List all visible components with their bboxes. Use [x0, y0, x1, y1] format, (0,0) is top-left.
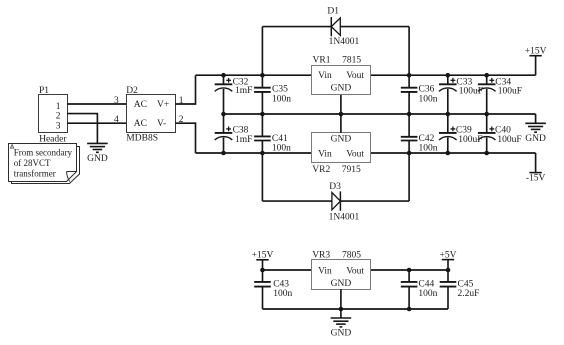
wire bottom return — [263, 308, 449, 310]
wire -15V drop — [535, 153, 537, 173]
diode D3 (1N4001), pointing right — [262, 191, 409, 210]
svg-text:AC: AC — [134, 100, 147, 110]
junction mid rail / VR GND stubs — [339, 112, 344, 117]
junction bottom rail / C41 column — [260, 151, 265, 156]
junction mid rail / C35-C41 column — [260, 112, 265, 117]
svg-text:VR3: VR3 — [312, 250, 330, 260]
ground GND (bottom section) — [331, 318, 352, 327]
junction mid rail / C36-C42 column — [407, 112, 412, 117]
wire middle ground rail — [224, 113, 536, 115]
wire bottom rail left (V- input to VR2 Vin) — [196, 152, 312, 154]
svg-text:C45: C45 — [458, 279, 474, 289]
bridge rectifier D2 (MDB8S) — [126, 86, 175, 144]
wire VR3 GND stub to bottom return — [340, 289, 342, 309]
svg-text:GND: GND — [331, 279, 352, 289]
svg-text:VR2: VR2 — [312, 165, 330, 175]
svg-text:1N4001: 1N4001 — [329, 37, 360, 47]
junction top rail / C35 column — [260, 73, 265, 78]
svg-text:Vout: Vout — [346, 71, 364, 81]
power tick +15V (bottom) — [256, 259, 268, 261]
connector P1 (Header) — [39, 86, 68, 144]
svg-text:100n: 100n — [419, 94, 438, 104]
regulator VR1 (7815) — [312, 56, 371, 95]
wire bottom rail right (VR2 Vout to -15V) — [371, 152, 536, 154]
svg-text:D3: D3 — [329, 182, 341, 192]
junction bottom return / VR3 GND — [339, 307, 344, 312]
wire right column x=409 (D1/D3 loop through C36,C42) — [408, 27, 410, 202]
junction top wire / C45 +5V — [446, 268, 451, 273]
svg-text:100uF: 100uF — [459, 86, 483, 96]
wire P1 pin2 to ground — [67, 114, 97, 144]
svg-text:V-: V- — [157, 119, 166, 129]
svg-text:D2: D2 — [126, 86, 138, 96]
svg-text:1mF: 1mF — [235, 135, 252, 145]
ground GND (right, output common) — [525, 123, 546, 132]
svg-text:100uF: 100uF — [498, 86, 522, 96]
junction bottom rail / C39 — [446, 151, 451, 156]
svg-text:+15V: +15V — [252, 251, 274, 261]
svg-text:From secondary: From secondary — [14, 148, 73, 158]
svg-text:-15V: -15V — [526, 174, 546, 184]
wire VR2 GND stub to middle rail — [340, 114, 342, 133]
svg-text:7815: 7815 — [342, 56, 361, 66]
capacitor C39 (100uF) — [439, 114, 457, 153]
svg-text:Vout: Vout — [346, 266, 364, 276]
svg-text:1: 1 — [56, 102, 61, 112]
wire top rail left (V+ input to VR1 Vin) — [196, 74, 312, 76]
wire left column x=262 (D1/D3 loop through C35,C41) — [261, 27, 263, 202]
wire D2 pin1 (V+) up to top rail — [175, 75, 195, 104]
wire VR3 Vout to +5V — [371, 269, 448, 271]
svg-text:V+: V+ — [157, 100, 169, 110]
svg-text:100n: 100n — [272, 143, 291, 153]
power -15V — [529, 172, 541, 174]
svg-text:+5V: +5V — [440, 251, 457, 261]
power +15V — [529, 55, 541, 57]
junction top rail / C32 — [221, 73, 226, 78]
svg-text:transformer: transformer — [14, 168, 56, 178]
svg-text:C44: C44 — [418, 279, 434, 289]
svg-text:7805: 7805 — [342, 250, 361, 260]
power tick +5V — [442, 259, 454, 261]
svg-text:GND: GND — [87, 154, 108, 164]
svg-text:Vout: Vout — [346, 149, 364, 159]
capacitor C34 (100uF) — [478, 75, 496, 114]
svg-text:GND: GND — [525, 134, 546, 144]
capacitor C41 (100n) — [254, 136, 271, 140]
svg-text:GND: GND — [331, 329, 352, 339]
svg-text:D1: D1 — [327, 6, 339, 16]
power +5V — [447, 260, 449, 270]
svg-text:GND: GND — [331, 84, 352, 94]
svg-text:1mF: 1mF — [235, 86, 252, 96]
svg-text:C35: C35 — [272, 84, 288, 94]
svg-text:100uF: 100uF — [497, 135, 521, 145]
junction top rail / C36 column — [407, 73, 412, 78]
junction bottom rail / C38 — [221, 151, 226, 156]
svg-text:P1: P1 — [39, 86, 49, 96]
junction mid rail / C33-C39 — [446, 112, 451, 117]
wire P1 pin3 to D2 pin4 — [67, 122, 126, 124]
wire top rail right (VR1 Vout to +15V) — [371, 74, 536, 76]
wire ground drop (bottom section) — [340, 309, 342, 318]
wire +15V drop — [535, 56, 537, 75]
ground GND (left, P1 pin2) — [87, 143, 108, 152]
svg-text:Header: Header — [39, 134, 67, 144]
note: From secondary of 28VCT transformer — [9, 144, 80, 184]
svg-text:3: 3 — [114, 96, 119, 106]
junction top rail / C34 — [484, 73, 489, 78]
svg-text:C36: C36 — [419, 84, 435, 94]
junction +15V / C43 — [260, 268, 265, 273]
junction bottom rail / C42 column — [407, 151, 412, 156]
capacitor C38 (1mF) — [215, 114, 233, 153]
svg-text:2.2uF: 2.2uF — [458, 289, 480, 299]
svg-text:of 28VCT: of 28VCT — [14, 158, 51, 168]
capacitor C33 (100uF) — [439, 75, 457, 114]
regulator VR2 (7915) — [312, 133, 371, 176]
svg-text:VR1: VR1 — [313, 56, 331, 66]
wire VR1 GND stub to middle rail — [340, 95, 342, 114]
svg-text:3: 3 — [56, 121, 61, 131]
svg-text:100n: 100n — [419, 143, 438, 153]
svg-text:100n: 100n — [418, 289, 437, 299]
svg-text:Vin: Vin — [318, 266, 332, 276]
wire right ground drop — [535, 114, 537, 123]
svg-text:Vin: Vin — [318, 71, 332, 81]
svg-text:AC: AC — [134, 119, 147, 129]
svg-text:4: 4 — [114, 115, 119, 125]
regulator VR3 (7805) — [312, 250, 371, 289]
svg-text:C43: C43 — [273, 279, 289, 289]
junction mid rail / C34-C40 — [484, 112, 489, 117]
wire +15V to VR3 Vin — [263, 269, 312, 271]
capacitor C40 (100uF) — [478, 114, 496, 153]
capacitor C43 (100n) — [254, 270, 271, 309]
junction top wire / C44 — [407, 268, 412, 273]
svg-text:1N4001: 1N4001 — [329, 212, 360, 222]
junction top rail / C33 — [446, 73, 451, 78]
capacitor C45 (2.2uF) — [440, 270, 457, 309]
svg-text:MDB8S: MDB8S — [126, 134, 158, 144]
wire P1 pin1 to D2 pin3 — [67, 103, 126, 105]
diode D1 (1N4001), pointing left — [262, 17, 409, 36]
capacitor C36 (100n) — [401, 88, 418, 92]
junction bottom rail / C40 — [484, 151, 489, 156]
svg-text:100n: 100n — [273, 289, 292, 299]
junction bottom return / C44 — [407, 307, 412, 312]
capacitor C32 (1mF) — [215, 75, 233, 114]
svg-text:2: 2 — [56, 112, 61, 122]
svg-text:Vin: Vin — [318, 149, 332, 159]
svg-text:7915: 7915 — [342, 165, 361, 175]
capacitor C44 (100n) — [401, 270, 418, 309]
wire D2 pin2 (V-) down to bottom rail — [175, 123, 195, 153]
junction mid rail / C32-C38 — [221, 112, 226, 117]
capacitor C42 (100n) — [401, 137, 418, 141]
svg-text:+15V: +15V — [525, 46, 547, 56]
capacitor C35 (100n) — [254, 88, 271, 92]
power +15V (bottom section) — [262, 260, 264, 270]
svg-text:100n: 100n — [272, 94, 291, 104]
svg-text:GND: GND — [331, 135, 352, 145]
